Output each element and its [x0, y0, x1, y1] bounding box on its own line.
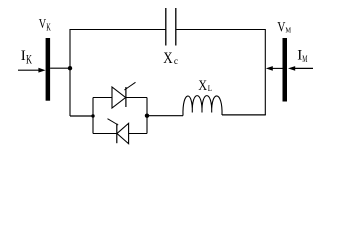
junction valve left — [91, 114, 94, 117]
current arrow IK — [18, 68, 46, 73]
wire top right — [176, 29, 265, 31]
wire valve to inductor — [147, 115, 183, 117]
label VK — [39, 16, 51, 34]
bus bar M — [283, 38, 288, 102]
label IM — [297, 47, 307, 65]
svg-text:c: c — [174, 57, 178, 67]
label IK — [21, 48, 33, 66]
arrow into node M — [266, 66, 283, 71]
label XL — [198, 78, 212, 94]
label Xc — [163, 50, 178, 67]
valve box left edge — [92, 98, 94, 134]
wire bus K to node — [50, 67, 70, 69]
svg-text:L: L — [208, 83, 212, 93]
capacitor Xc — [166, 8, 176, 46]
junction valve right — [145, 114, 149, 118]
wire bottom branch left — [93, 133, 117, 135]
wire inductor to right — [222, 114, 266, 116]
current arrow IM — [288, 66, 313, 71]
svg-text:M: M — [285, 26, 291, 35]
inductor XL — [183, 96, 222, 116]
thyristor V1 top — [112, 82, 136, 108]
svg-text:X: X — [198, 78, 207, 94]
wire bottom branch right — [129, 133, 147, 135]
svg-text:K: K — [26, 52, 32, 66]
svg-text:V: V — [277, 19, 285, 35]
svg-text:X: X — [163, 50, 173, 67]
thyristor V2 bottom — [108, 119, 129, 144]
wire left vertical — [69, 30, 71, 117]
valve box right edge — [146, 98, 148, 134]
wire right vertical — [264, 30, 266, 116]
wire top branch left — [93, 97, 112, 99]
wire top left — [69, 29, 165, 31]
wire bottom left — [70, 115, 93, 117]
label VM — [277, 19, 291, 35]
bus bar K — [46, 38, 51, 101]
svg-text:K: K — [46, 23, 51, 34]
wire top branch right — [126, 97, 147, 99]
svg-text:M: M — [302, 54, 307, 65]
junction node K — [68, 66, 72, 70]
